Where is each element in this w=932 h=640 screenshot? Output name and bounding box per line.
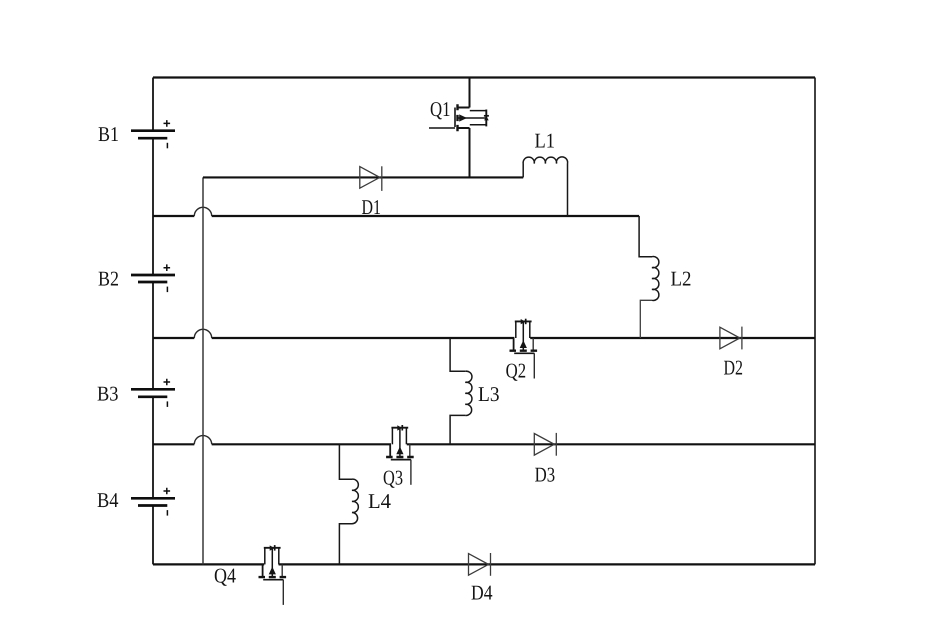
MOSFET Q3 <box>386 425 414 485</box>
battery B2 <box>131 264 175 292</box>
svg-text:Q2: Q2 <box>506 359 526 383</box>
inductor L1 <box>523 157 567 216</box>
battery B3 <box>131 379 175 407</box>
svg-text:Q3: Q3 <box>383 466 403 490</box>
svg-text:L4: L4 <box>368 489 391 513</box>
wire rail B1-B2 <box>153 215 639 217</box>
battery B1 <box>131 120 175 148</box>
svg-text:D1: D1 <box>362 195 382 219</box>
svg-text:B2: B2 <box>98 266 119 290</box>
wire top rail <box>153 76 815 78</box>
diode D3 <box>534 433 556 456</box>
wire vertical node bus x=203 <box>202 177 204 564</box>
svg-text:Q1: Q1 <box>430 97 451 121</box>
inductor L4 <box>339 444 358 564</box>
svg-text:L3: L3 <box>478 382 500 406</box>
svg-text:B3: B3 <box>97 381 119 405</box>
svg-text:D2: D2 <box>724 356 744 380</box>
MOSFET Q4 <box>259 545 287 605</box>
MOSFET Q1 <box>429 104 489 131</box>
hop on rail B2-B3 <box>194 329 211 338</box>
diode D1 <box>360 166 382 191</box>
MOSFET Q2 <box>510 319 538 379</box>
diode D2 <box>720 327 742 350</box>
hop on rail B3-B4 <box>194 436 211 445</box>
svg-text:Q4: Q4 <box>214 564 236 588</box>
hop on rail B1-B2 <box>194 207 211 216</box>
wire rail B2-B3 <box>153 337 815 339</box>
inductor L2 <box>639 216 659 338</box>
wire D1 branch horizontal <box>203 176 523 178</box>
svg-text:L2: L2 <box>671 267 692 291</box>
diode D4 <box>469 553 491 576</box>
svg-text:D3: D3 <box>535 462 556 486</box>
wire bottom rail <box>153 563 815 565</box>
battery B4 <box>131 488 175 516</box>
wire Q1 drain to top rail <box>469 78 471 108</box>
wire rail B3-B4 <box>153 443 815 445</box>
svg-text:D4: D4 <box>471 581 493 605</box>
wire right rail <box>814 78 816 565</box>
svg-text:B4: B4 <box>97 488 119 512</box>
svg-text:B1: B1 <box>98 122 119 146</box>
wire left rail <box>152 78 154 565</box>
inductor L3 <box>450 338 472 444</box>
wire Q1 source down to D1 branch <box>469 128 471 177</box>
svg-text:L1: L1 <box>535 128 556 152</box>
